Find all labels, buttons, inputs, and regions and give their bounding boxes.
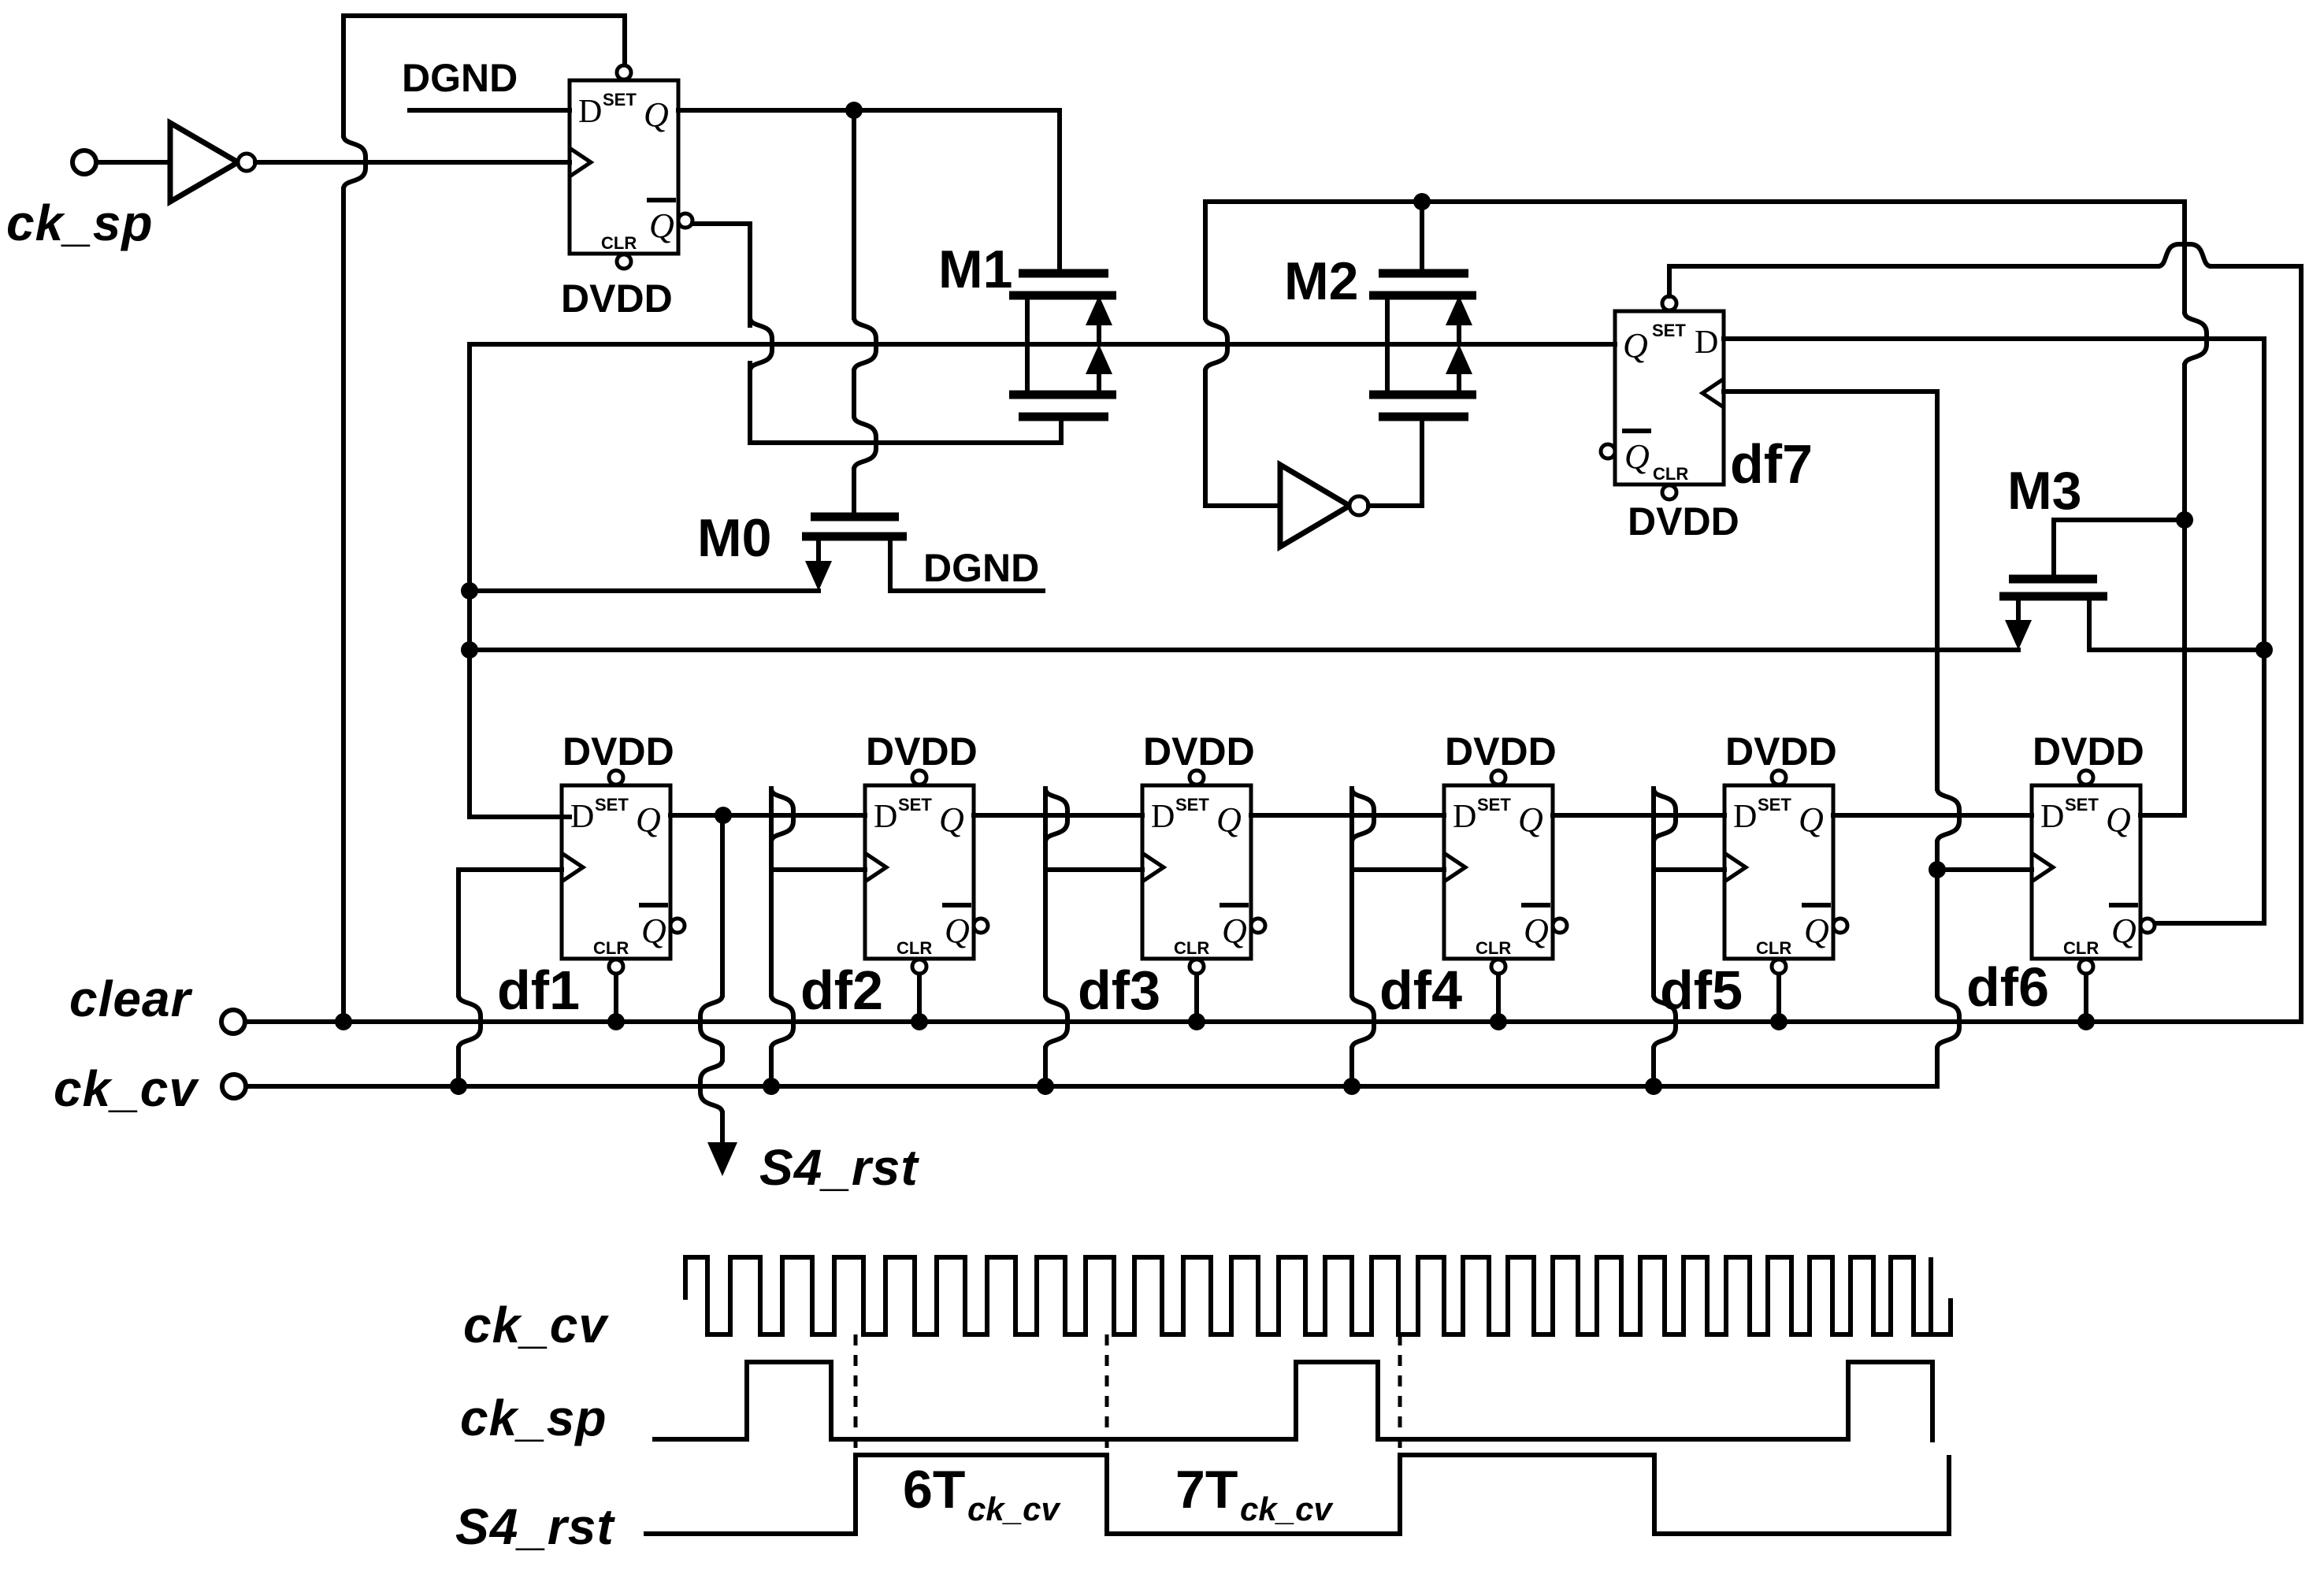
svg-text:ck_cv: ck_cv — [967, 1490, 1061, 1527]
svg-text:clear: clear — [69, 971, 193, 1027]
node junction mid riser / reset rail1 — [461, 582, 478, 599]
wire df3 clock riser hops clear rail (hop) — [1045, 995, 1067, 1049]
svg-text:DVDD: DVDD — [1628, 499, 1739, 544]
wire top wire to DFF0 SET — [343, 16, 625, 69]
svg-text:df4: df4 — [1379, 959, 1462, 1021]
node junction df1 clock on ck_cv rail — [450, 1078, 467, 1095]
node junction df6 CLR on clear rail — [2077, 1013, 2095, 1030]
wire df2 clock riser from ck_cv — [771, 789, 865, 1086]
wire timing marker dash 2 — [1105, 1334, 1109, 1465]
node ck_sp input terminal — [72, 150, 96, 174]
wire df3 Q to df4 D — [1251, 813, 1444, 818]
svg-text:6T: 6T — [903, 1460, 965, 1520]
wire M2 top gate stub — [1420, 202, 1424, 271]
transistor M1 — [1009, 273, 1116, 417]
wire df5 clock riser hops clear rail (hop) — [1654, 995, 1676, 1049]
transistor M2 — [1369, 273, 1476, 417]
wire ck_cv rail — [247, 1084, 1937, 1089]
wire df5 clock riser hops Q chain (hop) — [1654, 789, 1676, 842]
node ck_cv input terminal — [222, 1075, 246, 1098]
wire df5 clock riser from ck_cv — [1654, 789, 1724, 1086]
node junction df6 clock branch — [1929, 861, 1946, 878]
inverter U2 (M2 feedback) — [1280, 465, 1349, 547]
wire df2 CLR stub to clear rail — [917, 976, 922, 1022]
svg-text:ck_cv: ck_cv — [463, 1297, 609, 1353]
wire S4_rst tap from df1 Q — [720, 815, 725, 1146]
wire df1 Q to df2 D — [670, 813, 865, 818]
wire timing marker dash 1 — [854, 1334, 858, 1465]
flip-flop df4 — [1444, 770, 1567, 974]
svg-text:DVDD: DVDD — [866, 729, 978, 774]
wire S4_rst tap hops ck_cv rail (hop) — [700, 1060, 722, 1113]
wire df6/df7 clock riser x2459 — [1937, 392, 2032, 1086]
svg-text:M2: M2 — [1284, 251, 1358, 311]
node junction mid riser / reset rail2 — [461, 641, 478, 659]
wire df4 CLR stub to clear rail — [1496, 976, 1501, 1022]
flip-flop df3 — [1142, 770, 1265, 974]
wire M0 gate riser hops main wire (hop) — [854, 317, 876, 371]
node junction rail2 / vertical B — [2255, 641, 2273, 659]
flip-flop DFF0 (top) — [570, 65, 692, 269]
svg-text:df2: df2 — [800, 959, 883, 1021]
wire main pass-gate node y437 — [470, 342, 1615, 347]
wire df1 clock riser from ck_cv — [458, 870, 562, 1086]
wire timing marker dash 3 — [1398, 1334, 1402, 1465]
wire df4 clock riser hops clear rail (hop) — [1352, 995, 1374, 1049]
svg-text:DVDD: DVDD — [1725, 729, 1837, 774]
wire reset rail1 y750 to M0 drain — [470, 588, 819, 593]
svg-text:S4_rst: S4_rst — [455, 1498, 615, 1555]
node junction M2 gate on DVDD-row rail — [1413, 193, 1431, 210]
wire Qbar riser hops main wire (hop) — [750, 317, 772, 371]
flip-flop df7 — [1601, 296, 1724, 499]
wire clear rail — [246, 1019, 2301, 1024]
node clear input terminal — [221, 1010, 245, 1034]
wire DFF0 Q output — [678, 108, 1060, 113]
svg-text:M3: M3 — [2007, 461, 2081, 521]
flip-flop df2 — [865, 770, 988, 974]
wire df7 D input from df6 Qbar — [1724, 336, 2264, 341]
wire M2 left branch hops main wire (hop) — [1205, 317, 1227, 371]
wire df2 clock riser hops Q chain (hop) — [771, 789, 793, 842]
svg-text:df6: df6 — [1966, 956, 2049, 1018]
svg-text:DVDD: DVDD — [561, 277, 673, 321]
wire M0 gate riser hops Qbar wire (hop) — [854, 416, 876, 470]
svg-text:df7: df7 — [1730, 433, 1813, 495]
wire reset rail2 y825 to M3 drain — [470, 648, 2018, 652]
wire M2 left branch down to inverter U2 — [1205, 202, 1280, 506]
wire vertical B x2874 (df6 Qbar to df7 D) — [2154, 339, 2264, 923]
node junction df5 CLR on clear rail — [1770, 1013, 1788, 1030]
wire ck_cv waveform — [685, 1257, 1951, 1334]
transistor M3 — [1999, 520, 2264, 650]
transistor M0 — [802, 517, 1043, 591]
svg-text:DVDD: DVDD — [1143, 729, 1255, 774]
wire S4_rst waveform — [644, 1455, 1949, 1534]
wire df1 CLR stub to clear rail — [614, 976, 618, 1022]
wire vertical A x2773 (M2 gate rail to df6 Q) — [2182, 202, 2187, 815]
svg-text:DVDD: DVDD — [1445, 729, 1557, 774]
wire U2 output to M2 bottom gate — [1368, 419, 1422, 506]
wire df6 clock riser hops df6 Q wire (hop) — [1937, 789, 1959, 842]
svg-text:DGND: DGND — [923, 546, 1039, 590]
wire ck_sp waveform — [652, 1362, 1932, 1442]
node junction df5 clock on ck_cv rail — [1645, 1078, 1662, 1095]
svg-text:M0: M0 — [697, 508, 771, 568]
wire df4 clock riser hops Q chain (hop) — [1352, 789, 1374, 842]
wire df7 SET wire hops vertical A (hop) — [2158, 244, 2211, 266]
node junction df4 clock on ck_cv rail — [1343, 1078, 1361, 1095]
wire df2 Q to df3 D — [974, 813, 1142, 818]
wire df5 CLR stub to clear rail — [1776, 976, 1781, 1022]
node junction M3 gate / vertical A — [2176, 511, 2193, 529]
wire df7 clock from ck_cv riser — [1724, 389, 1937, 394]
node junction df3 clock on ck_cv rail — [1037, 1078, 1054, 1095]
wire vertical C x2921 (clear to df7 SET) — [2299, 266, 2304, 1022]
svg-text:DVDD: DVDD — [2033, 729, 2144, 774]
node junction clear riser on clear rail — [335, 1013, 352, 1030]
svg-text:df1: df1 — [497, 959, 580, 1021]
wire vertical A hops df7 D wire (hop) — [2185, 312, 2207, 366]
wire df5 Q to df6 D — [1833, 813, 2032, 818]
svg-text:df5: df5 — [1660, 959, 1743, 1021]
svg-text:ck_cv: ck_cv — [1240, 1490, 1334, 1527]
svg-text:S4_rst: S4_rst — [759, 1139, 919, 1196]
svg-text:df3: df3 — [1078, 959, 1160, 1021]
svg-text:ck_sp: ck_sp — [460, 1390, 607, 1446]
wire df7 SET to clear net y338 — [1669, 266, 2301, 296]
wire clear riser hops ck_sp wire (hop) — [343, 135, 366, 189]
svg-text:ck_sp: ck_sp — [6, 195, 153, 251]
wire ck_sp terminal to inverter — [96, 160, 170, 165]
svg-text:ck_cv: ck_cv — [54, 1060, 199, 1117]
svg-text:DVDD: DVDD — [562, 729, 674, 774]
wire M2 gate rail y256 — [1205, 199, 2185, 204]
node junction df3 CLR on clear rail — [1188, 1013, 1205, 1030]
wire DFF0 Qbar to M1 bottom gate net — [692, 224, 1061, 443]
wire df4 Q to df5 D — [1553, 813, 1724, 818]
flip-flop df1 — [562, 770, 685, 974]
wire df1 clock riser hops clear rail (hop) — [458, 995, 481, 1049]
flip-flop df5 — [1724, 770, 1847, 974]
wire df6 Q up to M2 gate rail — [2140, 813, 2185, 818]
node junction DFF0 Q / M0 gate riser — [845, 102, 863, 119]
svg-text:M1: M1 — [938, 239, 1012, 299]
wire DGND stub to DFF0 D — [410, 108, 570, 113]
wire df4 clock riser from ck_cv — [1352, 789, 1444, 1086]
node junction df1 CLR on clear rail — [607, 1013, 625, 1030]
wire df6 clock riser hops clear rail (hop) — [1937, 995, 1959, 1049]
node S4_rst arrow — [707, 1142, 737, 1176]
inverter U1 (ck_sp buffer) — [170, 123, 238, 202]
wire df2 clock riser hops clear rail (hop) — [771, 995, 793, 1049]
wire mid node riser x596 to df1 D — [470, 344, 570, 817]
node junction df4 CLR on clear rail — [1490, 1013, 1507, 1030]
wire df3 clock riser from ck_cv — [1045, 789, 1142, 1086]
node junction df1 Q / S4_rst tap — [715, 807, 732, 824]
node junction df2 CLR on clear rail — [911, 1013, 928, 1030]
wire M1 top gate riser — [1057, 110, 1062, 271]
wire df6 CLR stub to clear rail — [2084, 976, 2088, 1022]
wire inverter output to DFF0 clock — [255, 160, 570, 165]
wire S4_rst tap hops clear rail (hop) — [700, 995, 722, 1049]
svg-text:DGND: DGND — [402, 56, 518, 100]
wire clear vertical riser x436 — [341, 16, 346, 1022]
wire M0 gate riser x1084 — [852, 110, 856, 517]
node junction df2 clock on ck_cv rail — [763, 1078, 780, 1095]
flip-flop df6 — [2032, 770, 2155, 974]
wire df3 CLR stub to clear rail — [1194, 976, 1199, 1022]
svg-text:7T: 7T — [1175, 1460, 1238, 1520]
wire df3 clock riser hops Q chain (hop) — [1045, 789, 1067, 842]
